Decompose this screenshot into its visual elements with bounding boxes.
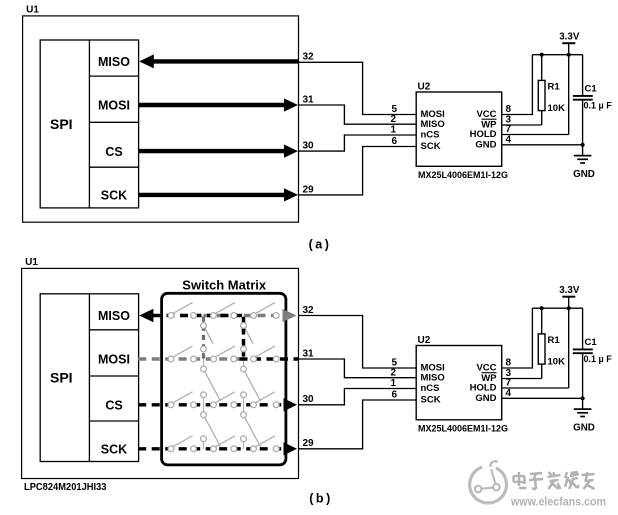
SPI cell border 1 (b) — [89, 329, 138, 331]
svg-text:SCK: SCK — [421, 141, 441, 152]
svg-text:SCK: SCK — [421, 395, 441, 406]
svg-text:10K: 10K — [548, 356, 566, 367]
svg-text:MOSI: MOSI — [98, 99, 130, 113]
grey route vertical link — [202, 317, 205, 360]
CS arrow to flash (a) — [139, 149, 285, 153]
3.3V riser to HOLD (b) — [568, 297, 570, 388]
svg-text:VCC: VCC — [476, 109, 496, 120]
wire 32 to U2 pin5 (a) — [299, 62, 417, 114]
wire 29 to U2 pin6 (b) — [299, 400, 417, 449]
svg-text:(b): (b) — [309, 492, 332, 506]
svg-text:6: 6 — [392, 390, 398, 401]
grey route arrow out 32 — [283, 309, 297, 322]
flash U2 box (b) — [416, 346, 502, 420]
resistor R1 (b) — [541, 308, 543, 334]
svg-text:MISO: MISO — [98, 55, 130, 69]
junction dot GND net (b) — [581, 396, 585, 400]
svg-text:29: 29 — [303, 438, 315, 449]
svg-text:U1: U1 — [25, 257, 38, 268]
svg-text:CS: CS — [105, 399, 122, 413]
svg-text:MX25L4006EM1I-12G: MX25L4006EM1I-12G — [418, 423, 508, 434]
pin 8 VCC stub (b) — [502, 308, 533, 368]
SPI cell border 2 (a) — [89, 121, 138, 123]
ground symbol (b) — [574, 408, 592, 410]
svg-text:8: 8 — [506, 104, 512, 115]
WP overline (b) — [482, 372, 497, 374]
svg-text:CS: CS — [105, 145, 122, 159]
wire 29 to U2 pin6 (a) — [299, 147, 417, 195]
SCK arrow to flash (a) — [139, 193, 285, 197]
SPI block box (b) — [40, 294, 138, 462]
svg-text:MISO: MISO — [421, 119, 445, 130]
pin 7 HOLD stub (a) — [502, 134, 569, 136]
svg-text:MISO: MISO — [421, 372, 445, 383]
svg-text:3.3V: 3.3V — [559, 32, 580, 43]
junction dot GND net (a) — [581, 143, 585, 147]
svg-text:VCC: VCC — [476, 363, 496, 374]
SPI cell border 3 (a) — [89, 166, 138, 168]
supply node wire (a) — [532, 54, 582, 56]
svg-text:www.elecfans.com: www.elecfans.com — [510, 495, 606, 509]
pin 4 GND stub (b) — [502, 397, 583, 399]
svg-text:GND: GND — [475, 393, 496, 404]
svg-text:0.1 µ F: 0.1 µ F — [584, 101, 613, 111]
supply node wire (b) — [532, 307, 582, 309]
svg-text:nCS: nCS — [421, 383, 440, 394]
pin 3 WP stub (a) — [502, 124, 542, 126]
svg-text:LPC824M201JHI33: LPC824M201JHI33 — [24, 482, 107, 493]
MCU U1 box (a) — [23, 16, 299, 222]
MOSI arrow to flash (a) — [139, 103, 285, 107]
capacitor C1 (b) — [582, 308, 584, 349]
watermark logo — [470, 467, 507, 503]
WP overline (a) — [482, 118, 497, 120]
svg-text:SPI: SPI — [50, 370, 73, 386]
svg-text:1: 1 — [391, 125, 397, 136]
grey route row 31 segment — [138, 357, 240, 360]
wire 31 to U2 pin2 (b) — [299, 359, 417, 378]
pin 7 HOLD stub (b) — [502, 387, 569, 389]
junction dot R1 top (a) — [540, 53, 544, 57]
svg-text:GND: GND — [573, 423, 595, 434]
svg-text:nCS: nCS — [421, 130, 440, 141]
svg-text:U2: U2 — [418, 335, 431, 346]
switch matrix box — [162, 293, 286, 465]
svg-text:1: 1 — [391, 378, 397, 389]
SPI cell border 3 (b) — [89, 420, 138, 422]
switch matrix connection stubs — [203, 316, 205, 323]
svg-text:31: 31 — [303, 348, 315, 359]
svg-text:U1: U1 — [26, 5, 39, 16]
SPI cell border 2 (b) — [89, 375, 138, 377]
watermark chinese text — [514, 475, 525, 478]
svg-text:C1: C1 — [585, 337, 598, 348]
pin 4 GND stub (a) — [502, 144, 583, 146]
svg-text:Switch Matrix: Switch Matrix — [182, 278, 267, 293]
svg-text:2: 2 — [391, 367, 397, 378]
svg-text:8: 8 — [506, 358, 512, 369]
MISO arrow into MCU (a) — [139, 54, 154, 68]
svg-text:29: 29 — [303, 184, 315, 195]
junction dot R1 top (b) — [540, 306, 544, 310]
svg-text:R1: R1 — [548, 81, 561, 92]
switch matrix lever arms — [173, 303, 192, 314]
svg-text:32: 32 — [303, 52, 315, 63]
wire 30 to U2 pin1 (a) — [299, 135, 417, 151]
wire 31 to U2 pin2 (a) — [299, 105, 417, 124]
svg-text:R1: R1 — [548, 335, 561, 346]
svg-text:30: 30 — [303, 394, 315, 405]
svg-text:SCK: SCK — [101, 443, 127, 457]
SPI cell border 1 (a) — [89, 75, 138, 77]
black route MISO arrow (b) — [139, 309, 153, 323]
3.3V rail bar (a) — [562, 42, 575, 44]
svg-text:6: 6 — [392, 136, 398, 147]
svg-text:4: 4 — [506, 388, 512, 399]
ground symbol (a) — [574, 155, 592, 157]
svg-text:0.1 µ F: 0.1 µ F — [584, 354, 613, 364]
black route row 30 (CS) — [138, 403, 284, 406]
switch matrix contact circles — [168, 313, 174, 319]
svg-text:GND: GND — [475, 139, 496, 150]
svg-text:(a): (a) — [309, 237, 332, 251]
svg-text:3.3V: 3.3V — [559, 285, 580, 296]
svg-text:10K: 10K — [548, 103, 566, 114]
svg-text:U2: U2 — [418, 81, 431, 92]
svg-text:C1: C1 — [585, 84, 598, 95]
pin 8 VCC stub (a) — [502, 55, 533, 115]
black route row 31 segment — [240, 357, 299, 360]
junction dot 3.3V (b) — [567, 306, 571, 310]
wire 32 to U2 pin5 (b) — [299, 316, 417, 369]
pin 3 WP stub (b) — [502, 378, 542, 380]
svg-text:4: 4 — [506, 135, 512, 146]
svg-text:31: 31 — [303, 94, 315, 105]
svg-text:32: 32 — [303, 305, 315, 316]
SPI cell divider column (a) — [88, 40, 90, 208]
svg-text:MOSI: MOSI — [98, 353, 130, 367]
svg-text:2: 2 — [391, 114, 397, 125]
3.3V riser to HOLD (a) — [568, 43, 570, 134]
capacitor C1 (a) — [582, 55, 584, 95]
flash U2 box (a) — [416, 92, 502, 166]
SPI block box (a) — [40, 40, 138, 208]
SPI cell divider column (b) — [88, 294, 90, 462]
black route row 29 (SCK) — [138, 447, 284, 450]
MCU U1 box (b) — [22, 268, 299, 478]
svg-text:30: 30 — [303, 141, 315, 152]
svg-text:SPI: SPI — [50, 116, 73, 132]
junction dot 3.3V (a) — [567, 53, 571, 57]
svg-text:MISO: MISO — [98, 309, 130, 323]
3.3V rail bar (b) — [562, 296, 575, 298]
svg-text:MX25L4006EM1I-12G: MX25L4006EM1I-12G — [418, 170, 508, 181]
wire 30 to U2 pin1 (b) — [299, 389, 417, 405]
svg-text:GND: GND — [573, 169, 595, 180]
grey route row 32 segment — [204, 314, 283, 317]
svg-text:SCK: SCK — [101, 189, 127, 203]
black route vertical link — [242, 317, 246, 359]
resistor R1 (a) — [541, 55, 543, 81]
